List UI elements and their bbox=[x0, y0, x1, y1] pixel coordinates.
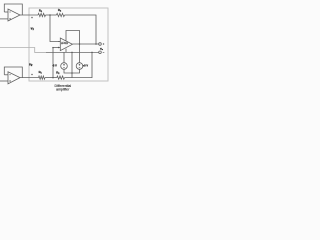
svg-text:LF411: LF411 bbox=[61, 41, 69, 45]
svg-text:+5 V: +5 V bbox=[83, 64, 89, 67]
svg-text:-5 V: -5 V bbox=[52, 65, 57, 68]
svg-text:amplifier: amplifier bbox=[56, 88, 70, 92]
